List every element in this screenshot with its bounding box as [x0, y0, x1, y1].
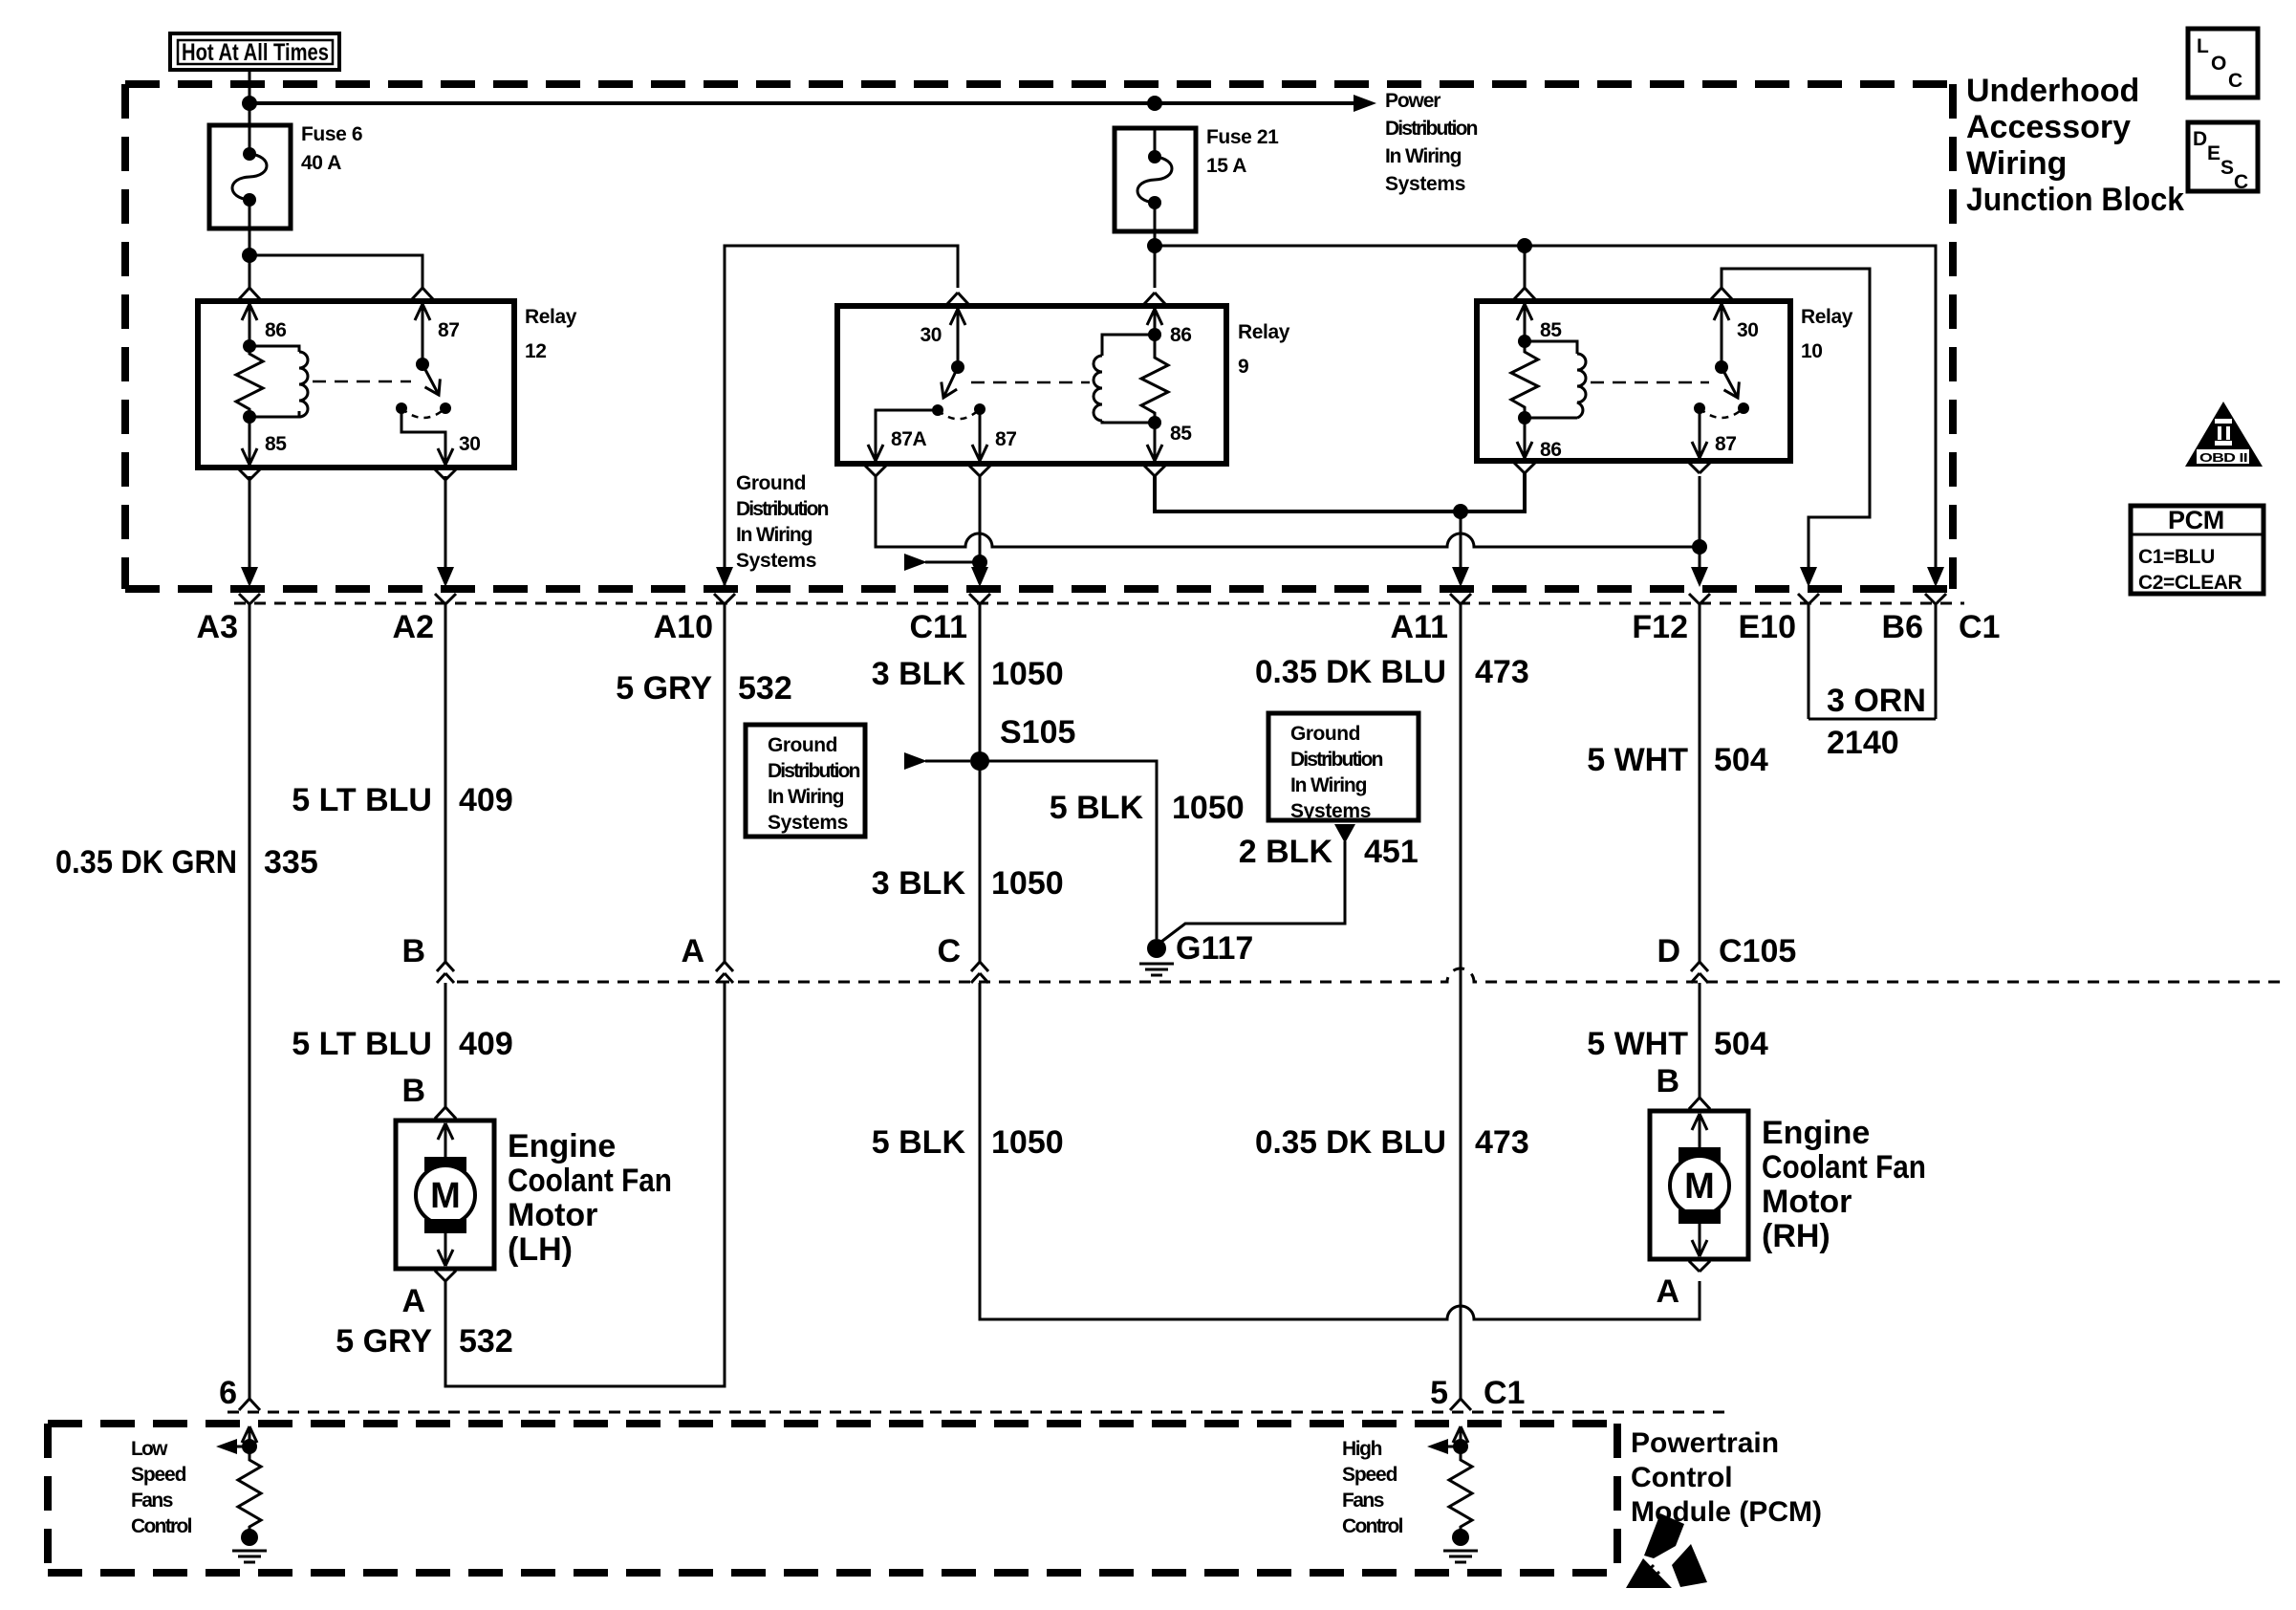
svg-text:In Wiring: In Wiring: [736, 524, 812, 546]
wire A11 drop: [1460, 511, 1462, 583]
relay 12 pin 87 connector: [412, 288, 433, 299]
relay 9 pin 87A exit: [868, 445, 883, 461]
svg-text:9: 9: [1238, 356, 1248, 378]
svg-text:D: D: [1657, 933, 1680, 969]
wire relay 12 30 down to A2: [444, 476, 447, 583]
wire C105 B to LH motor: [444, 983, 447, 1107]
svg-text:Fans: Fans: [1342, 1490, 1384, 1512]
wire hot feed from tag to fuse 6: [249, 70, 251, 125]
relay 10 pin 86 exit: [1517, 442, 1532, 458]
RH motor pin A connector: [1689, 1261, 1710, 1272]
svg-text:504: 504: [1714, 1026, 1768, 1062]
connector chevron F12: [1689, 594, 1710, 604]
svg-text:(LH): (LH): [508, 1231, 573, 1268]
svg-text:30: 30: [459, 433, 481, 455]
wire A10 riser to relay 9 pin 30: [725, 246, 958, 585]
label 5 GRY 532 lower: [336, 1323, 513, 1360]
arrow power distribution: [1354, 95, 1376, 112]
high speed fans control label: [1342, 1438, 1403, 1537]
relay 9 pin 86 connector: [1144, 293, 1165, 304]
svg-text:C: C: [2228, 70, 2242, 92]
label 0.35 DK BLU 473 lower: [1255, 1124, 1529, 1161]
node power rail junction at fuse 6: [242, 96, 257, 111]
svg-text:In Wiring: In Wiring: [1290, 774, 1367, 796]
wire relay 10 87 down to F12: [1699, 476, 1701, 583]
relay 9 coil: [1094, 309, 1168, 461]
motor LH label: [508, 1128, 672, 1268]
svg-text:Systems: Systems: [736, 550, 816, 572]
svg-text:Distribution: Distribution: [736, 498, 829, 520]
ground G117: [1139, 939, 1174, 975]
relay 9 coil-switch link: [971, 381, 1090, 384]
svg-text:85: 85: [1540, 319, 1562, 341]
svg-text:Control: Control: [131, 1515, 192, 1537]
wire arrow to S105: [925, 760, 970, 763]
connector chevron A11: [1450, 594, 1471, 604]
svg-text:Coolant Fan: Coolant Fan: [1762, 1149, 1926, 1186]
wire relay 12 85 down to A3: [249, 476, 251, 583]
label 2 BLK 451: [1239, 834, 1419, 870]
junction block exit arrow F12: [1691, 567, 1708, 587]
relay 9 switch: [876, 309, 986, 461]
ground distribution label top: [736, 472, 829, 572]
svg-text:30: 30: [920, 324, 942, 346]
svg-text:Ground: Ground: [768, 734, 837, 756]
svg-text:87: 87: [438, 319, 460, 341]
svg-text:5 LT BLU: 5 LT BLU: [292, 782, 432, 818]
connector chevron B6: [1925, 594, 1946, 604]
svg-text:87A: 87A: [891, 428, 927, 450]
relay 10 label: [1801, 306, 1853, 362]
LOC reference box: [2188, 29, 2258, 98]
svg-text:1050: 1050: [991, 1124, 1064, 1161]
wire relay 10 pin 30 feed loop: [1722, 269, 1870, 583]
relay 12 pin 85 exit: [242, 448, 257, 465]
OBD II icon: [2185, 402, 2263, 467]
svg-text:A11: A11: [1391, 609, 1449, 645]
wire C11 to S105: [979, 604, 982, 962]
wire arrow to C11: [925, 561, 975, 564]
svg-text:0.35 DK BLU: 0.35 DK BLU: [1255, 654, 1446, 690]
junction block exit arrow A10: [716, 567, 733, 587]
svg-text:A10: A10: [654, 609, 713, 645]
wire F12 to C105 pin D: [1699, 604, 1701, 962]
underhood junction block dashed border: [125, 84, 1953, 589]
svg-text:3 BLK: 3 BLK: [872, 865, 966, 902]
wire A10 riser from LH motor: [724, 604, 726, 962]
svg-text:Distribution: Distribution: [1290, 749, 1383, 771]
svg-text:409: 409: [459, 782, 513, 818]
svg-text:Low: Low: [131, 1438, 168, 1460]
label 5 LT BLU 409 lower: [292, 1026, 512, 1062]
svg-text:Fans: Fans: [131, 1490, 173, 1512]
svg-text:G117: G117: [1176, 930, 1253, 967]
svg-text:Accessory: Accessory: [1966, 109, 2131, 145]
power distribution label: [1385, 90, 1478, 195]
svg-text:Fuse 6: Fuse 6: [301, 123, 362, 145]
connector chevron A3: [239, 594, 260, 604]
svg-text:(RH): (RH): [1762, 1218, 1830, 1254]
svg-text:A: A: [681, 933, 704, 969]
connector C105 pin D chevron: [1691, 962, 1708, 983]
svg-text:Systems: Systems: [1290, 800, 1371, 822]
svg-text:C2=CLEAR: C2=CLEAR: [2138, 572, 2242, 594]
svg-text:451: 451: [1364, 834, 1419, 870]
LH motor pin B connector: [435, 1107, 456, 1119]
svg-text:Systems: Systems: [768, 812, 848, 834]
PCM dashed border: [48, 1424, 1617, 1573]
svg-text:Distribution: Distribution: [768, 760, 860, 782]
junction block exit arrow A11: [1452, 567, 1469, 587]
wire G451 from arrow to G117: [1158, 841, 1345, 945]
wire 3 ORN bracket: [1809, 718, 1936, 721]
svg-text:409: 409: [459, 1026, 513, 1062]
svg-text:0.35 DK GRN: 0.35 DK GRN: [55, 844, 237, 881]
label 3 ORN 2140: [1827, 683, 1926, 761]
svg-text:C1: C1: [1959, 609, 2000, 645]
svg-text:A: A: [401, 1283, 425, 1319]
svg-text:86: 86: [1540, 439, 1562, 461]
svg-text:C1=BLU: C1=BLU: [2138, 546, 2215, 568]
svg-text:15 A: 15 A: [1206, 155, 1246, 177]
connector chevron A10: [714, 594, 735, 604]
wire power rail to power distribution arrow: [249, 101, 1357, 105]
connector chevron A2: [435, 594, 456, 604]
label 5 BLK 1050 middle: [1050, 790, 1245, 826]
svg-text:B: B: [401, 933, 425, 969]
svg-text:D: D: [2193, 128, 2207, 150]
svg-text:5 GRY: 5 GRY: [616, 670, 712, 707]
svg-text:E: E: [2207, 142, 2220, 164]
svg-text:A2: A2: [393, 609, 434, 645]
svg-text:C: C: [2234, 171, 2248, 193]
svg-text:12: 12: [525, 340, 547, 362]
relay 10 pin 30 connector: [1711, 288, 1732, 299]
svg-text:Powertrain: Powertrain: [1631, 1427, 1779, 1459]
wire fuse 21 output: [1154, 231, 1157, 288]
relay 10 switch: [1694, 304, 1749, 458]
arrow ground distribution top: [904, 554, 927, 571]
svg-text:B: B: [1656, 1063, 1679, 1099]
svg-text:High: High: [1342, 1438, 1382, 1460]
svg-text:Power: Power: [1385, 90, 1440, 112]
svg-text:M: M: [1684, 1166, 1715, 1207]
node fuse 6 output branch: [242, 248, 257, 263]
svg-text:504: 504: [1714, 742, 1768, 778]
svg-text:L: L: [2197, 35, 2209, 57]
wire A3 to PCM pin 6: [249, 604, 251, 1399]
svg-text:5 WHT: 5 WHT: [1587, 742, 1688, 778]
junction block exit arrow E10: [1800, 567, 1817, 587]
fuse F6: [209, 125, 291, 228]
connector C105 pin C chevron: [971, 962, 988, 983]
svg-text:Ground: Ground: [736, 472, 806, 494]
wire branch to relay 12 pin 87: [249, 255, 422, 288]
ground distribution label right boxed: [1268, 713, 1419, 822]
motor RH label: [1762, 1115, 1926, 1254]
svg-text:OBD II: OBD II: [2199, 450, 2247, 465]
svg-text:M: M: [430, 1176, 461, 1216]
svg-text:Wiring: Wiring: [1966, 145, 2067, 182]
relay 10 coil: [1511, 304, 1586, 458]
PCM pin 5 connector: [1450, 1399, 1471, 1410]
wire fuse 6 output: [249, 228, 251, 288]
label 3 BLK 1050 upper: [872, 656, 1064, 692]
svg-text:Coolant Fan: Coolant Fan: [508, 1163, 672, 1199]
low speed fans control label: [131, 1438, 192, 1537]
relay 12 switch: [396, 304, 451, 465]
svg-text:C105: C105: [1719, 933, 1796, 969]
svg-text:5 GRY: 5 GRY: [336, 1323, 432, 1360]
svg-text:532: 532: [459, 1323, 513, 1360]
svg-text:F12: F12: [1632, 609, 1688, 645]
junction block exit arrow A2: [437, 567, 454, 587]
connector C105 pin B chevron: [437, 962, 454, 983]
svg-text:86: 86: [1170, 324, 1192, 346]
svg-text:C11: C11: [910, 609, 968, 645]
relay 9: [837, 306, 1226, 464]
svg-text:1050: 1050: [991, 865, 1064, 902]
relay 12 pin 86 connector: [239, 288, 260, 299]
label 3 BLK 1050 lower: [872, 865, 1064, 902]
svg-text:5 BLK: 5 BLK: [1050, 790, 1144, 826]
wire relay 9 85 to relay 10 86: [1155, 473, 1525, 511]
node A11 drop junction: [1453, 504, 1468, 519]
svg-text:Relay: Relay: [1238, 321, 1290, 343]
svg-text:1050: 1050: [1172, 790, 1245, 826]
wire C105 D to RH motor B: [1699, 983, 1701, 1098]
PCM name label: [1631, 1427, 1822, 1528]
ground distribution label middle boxed: [746, 725, 865, 837]
relay 12 coil-switch link: [313, 381, 411, 383]
node ground distribution tap on C11: [972, 555, 987, 570]
svg-text:85: 85: [265, 433, 287, 455]
svg-text:30: 30: [1737, 319, 1759, 341]
svg-text:S: S: [2220, 157, 2234, 179]
svg-text:Engine: Engine: [1762, 1115, 1870, 1151]
wire B6 to 3 ORN bracket: [1935, 604, 1938, 719]
PCM pin 6 connector: [239, 1399, 260, 1410]
label 5 WHT 504 lower: [1587, 1026, 1768, 1062]
relay 12 label: [525, 306, 577, 362]
connector chevron C11: [969, 594, 990, 604]
fuse F6 label: [301, 123, 362, 174]
svg-text:E10: E10: [1739, 609, 1797, 645]
svg-text:Engine: Engine: [508, 1128, 616, 1164]
svg-text:Systems: Systems: [1385, 173, 1465, 195]
svg-text:2140: 2140: [1827, 725, 1899, 761]
svg-text:2 BLK: 2 BLK: [1239, 834, 1333, 870]
relay 10 pin 85 connector: [1514, 288, 1535, 299]
fuse F21 label: [1206, 126, 1279, 177]
wire A2 to C105 pin B: [444, 604, 447, 962]
svg-text:Distribution: Distribution: [1385, 118, 1478, 140]
wire A11 mid: [1460, 604, 1462, 1399]
relay 10: [1477, 301, 1790, 461]
svg-text:C: C: [937, 933, 961, 969]
svg-text:Fuse 21: Fuse 21: [1206, 126, 1279, 148]
hot at all times tag: [170, 33, 339, 70]
svg-text:5 BLK: 5 BLK: [872, 1124, 966, 1161]
svg-text:6: 6: [219, 1375, 237, 1411]
relay 9 pin 30 connector: [947, 293, 968, 304]
svg-text:40 A: 40 A: [301, 152, 341, 174]
motor RH: [1650, 1111, 1748, 1259]
connector chevron E10: [1798, 594, 1819, 604]
node tap to fuse 21: [1147, 96, 1162, 111]
relay 9 label: [1238, 321, 1290, 378]
node relay 10 pin 85 tap: [1517, 238, 1532, 253]
svg-text:Speed: Speed: [131, 1464, 186, 1486]
junction block exit arrow C11: [971, 567, 988, 587]
splice S105: [970, 751, 989, 771]
svg-text:0.35 DK BLU: 0.35 DK BLU: [1255, 1124, 1446, 1161]
svg-text:C1: C1: [1484, 1375, 1525, 1411]
svg-text:1050: 1050: [991, 656, 1064, 692]
svg-text:5: 5: [1430, 1375, 1448, 1411]
low speed fans control input: [216, 1426, 267, 1562]
wire rail fuse21 to B6 drop: [1155, 246, 1936, 583]
junction block connector dashed line: [234, 602, 1964, 605]
motor LH: [396, 1120, 494, 1269]
ESD sensitive icon: [1626, 1513, 1707, 1588]
svg-text:B6: B6: [1882, 609, 1923, 645]
junction block exit arrow B6: [1927, 567, 1944, 587]
wire C105 C to RH motor A run: [980, 983, 1700, 1319]
relay 9 pin 85 exit: [1147, 445, 1162, 461]
relay 10 coil-switch link: [1591, 381, 1709, 384]
wire S105 to G117 branch: [980, 761, 1157, 939]
svg-text:473: 473: [1475, 1124, 1529, 1161]
svg-text:5 LT BLU: 5 LT BLU: [292, 1026, 432, 1062]
arrow ground distribution middle: [904, 752, 927, 770]
svg-text:S105: S105: [1000, 714, 1075, 751]
relay 12: [198, 301, 514, 468]
svg-text:O: O: [2211, 53, 2226, 75]
relay 10 pin 87 exit: [1692, 442, 1707, 458]
svg-text:In Wiring: In Wiring: [1385, 145, 1462, 167]
wire relay 9 87 down to C11: [979, 476, 982, 583]
wire E10 to 3 ORN bracket: [1808, 604, 1810, 719]
svg-text:Ground: Ground: [1290, 723, 1360, 745]
label 5 WHT 504 upper: [1587, 742, 1768, 778]
fuse F21: [1115, 128, 1196, 231]
svg-text:532: 532: [738, 670, 792, 707]
svg-text:Relay: Relay: [525, 306, 577, 328]
junction block exit arrow A3: [241, 567, 258, 587]
node fuse 21 output rail: [1147, 238, 1162, 253]
relay 9 pin 87 exit: [972, 445, 987, 461]
junction block name label: [1966, 73, 2184, 218]
svg-text:5 WHT: 5 WHT: [1587, 1026, 1688, 1062]
relay 12 pin 30 exit: [438, 448, 453, 465]
RH motor pin B connector: [1689, 1098, 1710, 1109]
svg-text:B: B: [401, 1073, 425, 1109]
svg-text:87: 87: [1715, 433, 1737, 455]
svg-text:3 ORN: 3 ORN: [1827, 683, 1926, 719]
svg-text:Relay: Relay: [1801, 306, 1853, 328]
svg-text:335: 335: [264, 844, 318, 881]
svg-text:Speed: Speed: [1342, 1464, 1397, 1486]
relay 12 coil: [236, 304, 308, 465]
wire 87A to F12: [876, 476, 1700, 547]
svg-text:Hot At All Times: Hot At All Times: [182, 39, 329, 66]
svg-text:PCM: PCM: [2168, 506, 2224, 534]
PCM connector dashed line: [227, 1411, 1728, 1414]
svg-text:Motor: Motor: [508, 1197, 597, 1233]
LH motor pin A connector: [435, 1271, 456, 1281]
arrow ground distribution right: [1334, 824, 1355, 843]
svg-text:10: 10: [1801, 340, 1823, 362]
svg-text:A: A: [1656, 1273, 1679, 1310]
label 5 BLK 1050 lower: [872, 1124, 1064, 1161]
wire drop to relay 10 pin 85: [1524, 246, 1527, 288]
PCM legend box: [2131, 506, 2264, 594]
svg-text:Junction Block: Junction Block: [1966, 182, 2184, 218]
DESC reference box: [2188, 122, 2258, 193]
connector C105 dashed line: [457, 968, 2285, 982]
svg-text:Motor: Motor: [1762, 1184, 1852, 1220]
label 5 GRY 532 upper: [616, 670, 792, 707]
svg-text:In Wiring: In Wiring: [768, 786, 844, 808]
node 87A joins F12 wire: [1692, 539, 1707, 555]
svg-text:Control: Control: [1342, 1515, 1403, 1537]
svg-text:85: 85: [1170, 423, 1192, 445]
label 0.35 DK GRN: [55, 844, 318, 881]
svg-text:87: 87: [995, 428, 1017, 450]
svg-text:Control: Control: [1631, 1462, 1733, 1493]
label 5 LT BLU 409 upper: [292, 782, 512, 818]
svg-text:86: 86: [265, 319, 287, 341]
connector C105 pin A chevron: [716, 962, 733, 983]
label 0.35 DK BLU 473 upper: [1255, 654, 1529, 690]
svg-text:Underhood: Underhood: [1966, 73, 2139, 109]
svg-text:3 BLK: 3 BLK: [872, 656, 966, 692]
svg-text:473: 473: [1475, 654, 1529, 690]
svg-text:A3: A3: [197, 609, 238, 645]
high speed fans control input: [1427, 1426, 1478, 1562]
wire LH motor A to A10 riser: [445, 983, 725, 1386]
